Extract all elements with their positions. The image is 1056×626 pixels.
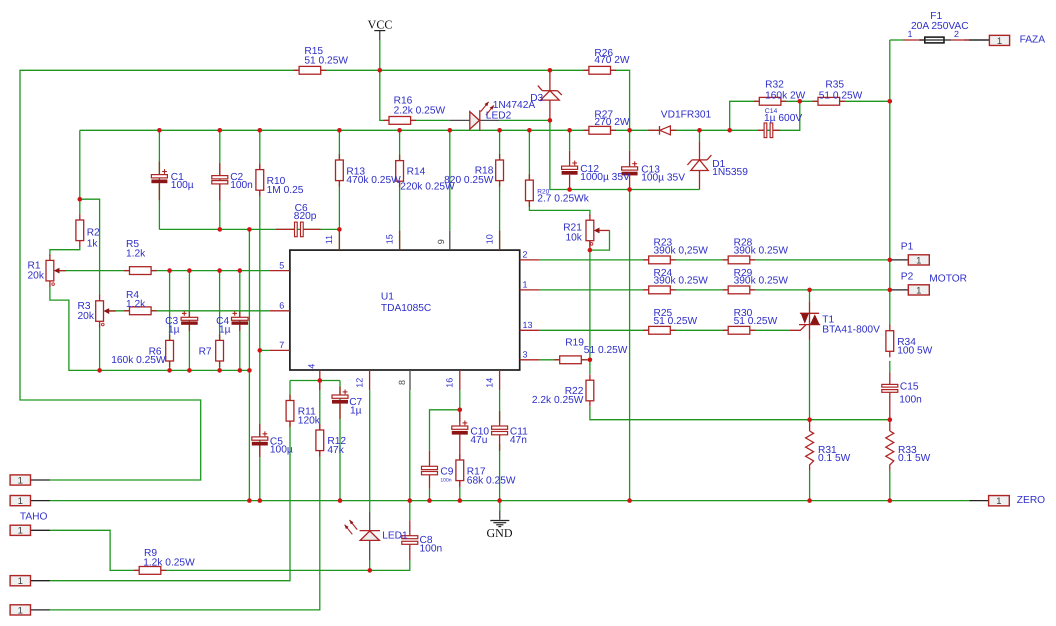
svg-text:100n: 100n (440, 478, 451, 484)
svg-text:R19: R19 (565, 337, 584, 348)
svg-text:120k: 120k (298, 415, 321, 426)
svg-text:51 0.25W: 51 0.25W (584, 345, 628, 356)
svg-text:1: 1 (916, 285, 921, 296)
svg-text:1: 1 (18, 496, 23, 507)
svg-text:1µ: 1µ (168, 324, 180, 335)
svg-text:470k 0.25W: 470k 0.25W (346, 175, 401, 186)
svg-text:TDA1085C: TDA1085C (381, 303, 431, 314)
svg-text:R35: R35 (825, 80, 844, 91)
svg-text:100µ 35V: 100µ 35V (641, 173, 685, 184)
svg-text:FAZA: FAZA (1020, 34, 1046, 45)
svg-text:1: 1 (908, 29, 913, 39)
svg-text:15: 15 (384, 234, 394, 244)
svg-text:6: 6 (279, 301, 284, 311)
svg-text:2.2k 0.25W: 2.2k 0.25W (532, 395, 584, 406)
svg-text:1.2k: 1.2k (126, 299, 146, 310)
svg-text:100µ: 100µ (270, 444, 293, 455)
svg-text:BTA41-800V: BTA41-800V (822, 325, 880, 336)
svg-text:P1: P1 (901, 241, 914, 252)
svg-text:100n: 100n (899, 395, 922, 406)
svg-text:1: 1 (523, 280, 528, 290)
svg-text:R2: R2 (87, 228, 100, 239)
svg-text:820p: 820p (294, 211, 317, 222)
svg-text:8: 8 (397, 380, 407, 385)
svg-text:10k: 10k (565, 232, 582, 243)
svg-text:51 0.25W: 51 0.25W (654, 316, 698, 327)
svg-text:2.7 0.25Wk: 2.7 0.25Wk (537, 194, 589, 205)
svg-text:1: 1 (18, 605, 23, 616)
svg-text:13: 13 (523, 320, 533, 330)
svg-text:20k: 20k (78, 311, 95, 322)
svg-text:1µ 600V: 1µ 600V (764, 113, 802, 124)
svg-text:100n: 100n (230, 180, 253, 191)
svg-text:LED2: LED2 (486, 110, 512, 121)
svg-text:1N5359: 1N5359 (712, 167, 748, 178)
svg-text:47n: 47n (510, 435, 527, 446)
svg-text:100n: 100n (420, 544, 443, 555)
svg-text:1µ: 1µ (219, 324, 231, 335)
svg-text:100µ: 100µ (171, 180, 194, 191)
svg-text:MOTOR: MOTOR (929, 273, 967, 284)
svg-text:9: 9 (436, 239, 446, 244)
svg-text:1µ: 1µ (350, 406, 362, 417)
svg-text:7: 7 (279, 340, 284, 350)
svg-text:C9: C9 (440, 467, 453, 478)
svg-text:1k: 1k (87, 239, 99, 250)
svg-text:68k 0.25W: 68k 0.25W (467, 476, 516, 487)
svg-text:VD1FR301: VD1FR301 (661, 109, 712, 120)
svg-text:820 0.25W: 820 0.25W (444, 175, 494, 186)
svg-text:390k 0.25W: 390k 0.25W (734, 276, 789, 287)
svg-text:1: 1 (18, 526, 23, 537)
svg-text:51 0.25W: 51 0.25W (304, 55, 348, 66)
svg-text:51 0.25W: 51 0.25W (819, 91, 863, 102)
svg-text:4: 4 (307, 364, 317, 369)
svg-text:1.2k: 1.2k (126, 248, 146, 259)
svg-text:R14: R14 (407, 167, 426, 178)
svg-text:R7: R7 (199, 347, 212, 358)
svg-text:LED1: LED1 (382, 531, 408, 542)
svg-text:11: 11 (324, 235, 334, 244)
svg-text:1: 1 (996, 496, 1001, 507)
svg-text:47u: 47u (470, 435, 487, 446)
svg-text:390k 0,25W: 390k 0,25W (654, 246, 709, 257)
svg-text:1000µ 35V: 1000µ 35V (580, 172, 630, 183)
svg-text:TAHO: TAHO (20, 512, 48, 523)
svg-text:160k 0.25W: 160k 0.25W (111, 355, 166, 366)
svg-text:270 2W: 270 2W (594, 117, 629, 128)
svg-text:20k: 20k (28, 271, 45, 282)
svg-text:20A 250VAC: 20A 250VAC (911, 21, 969, 32)
svg-text:U1: U1 (381, 291, 394, 302)
svg-text:390k 0.25W: 390k 0.25W (654, 276, 709, 287)
svg-text:1M 0.25: 1M 0.25 (267, 185, 304, 196)
svg-text:ZERO: ZERO (1017, 495, 1045, 506)
svg-text:1: 1 (18, 576, 23, 587)
svg-text:100 5W: 100 5W (897, 346, 932, 357)
svg-text:390k 0.25W: 390k 0.25W (734, 246, 789, 257)
svg-text:0.1 5W: 0.1 5W (818, 453, 851, 464)
svg-text:14: 14 (484, 378, 494, 388)
svg-text:R32: R32 (765, 80, 784, 91)
svg-text:47k: 47k (327, 445, 344, 456)
svg-text:1.2k 0.25W: 1.2k 0.25W (143, 557, 195, 568)
svg-text:160k 2W: 160k 2W (765, 91, 806, 102)
svg-text:P2: P2 (901, 272, 914, 283)
svg-text:0.1 5W: 0.1 5W (898, 453, 931, 464)
svg-text:2: 2 (954, 29, 959, 39)
svg-text:5: 5 (279, 260, 284, 270)
svg-text:16: 16 (445, 378, 455, 388)
svg-text:GND: GND (487, 526, 513, 540)
svg-text:VCC: VCC (368, 17, 393, 31)
svg-text:10: 10 (484, 234, 494, 244)
svg-text:1: 1 (18, 475, 23, 486)
svg-text:2: 2 (523, 250, 528, 260)
svg-text:1: 1 (997, 36, 1002, 47)
svg-text:C15: C15 (900, 381, 919, 392)
svg-text:470 2W: 470 2W (594, 55, 629, 66)
svg-text:3: 3 (523, 349, 528, 359)
svg-text:2.2k 0.25W: 2.2k 0.25W (394, 106, 446, 117)
svg-text:1: 1 (916, 255, 921, 266)
svg-text:12: 12 (354, 378, 364, 388)
svg-text:51 0.25W: 51 0.25W (734, 316, 778, 327)
